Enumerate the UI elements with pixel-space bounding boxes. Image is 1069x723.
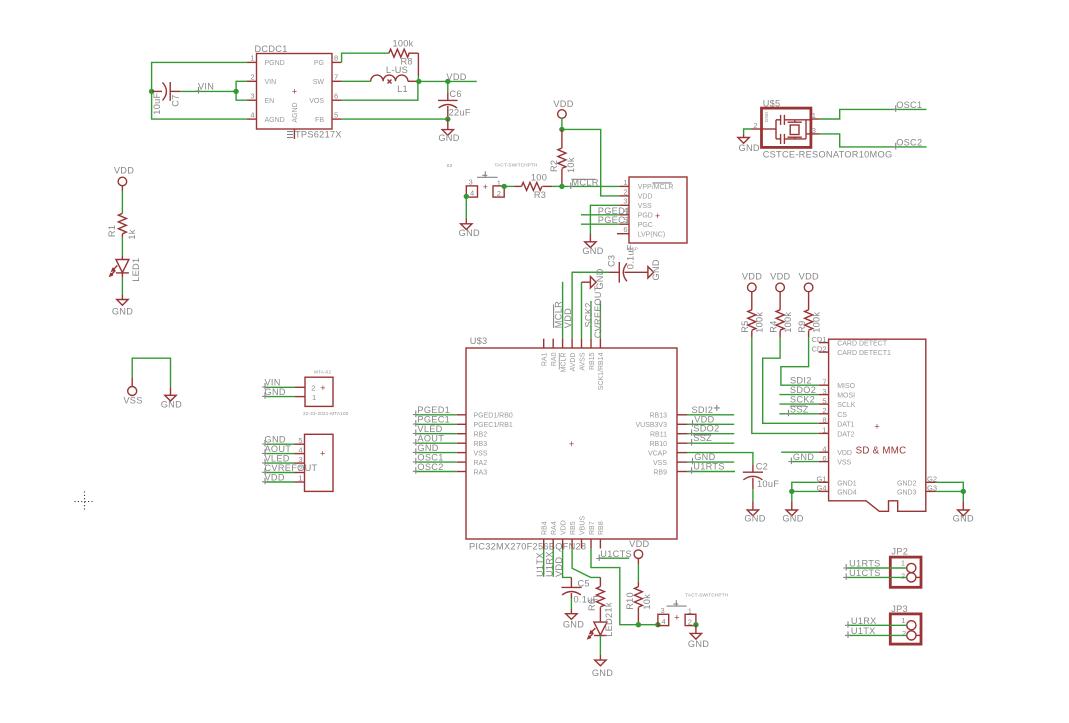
svg-text:AGND: AGND bbox=[292, 102, 299, 122]
ground LED1 bbox=[112, 300, 133, 317]
svg-text:DAT1: DAT1 bbox=[837, 421, 854, 428]
svg-text:5: 5 bbox=[334, 110, 338, 119]
svg-text:VOS: VOS bbox=[309, 98, 324, 105]
inductor L1 L-US bbox=[371, 65, 419, 94]
svg-text:R9: R9 bbox=[797, 320, 807, 332]
label MCLR bbox=[568, 178, 599, 190]
svg-text:+: + bbox=[569, 439, 574, 449]
svg-text:GND: GND bbox=[953, 513, 974, 523]
svg-text:AOUT: AOUT bbox=[265, 444, 292, 454]
svg-text:L1: L1 bbox=[397, 84, 408, 94]
svg-text:1: 1 bbox=[623, 178, 627, 187]
ground C5 bbox=[563, 614, 584, 630]
wire SD G2/G3 to GND bbox=[936, 482, 964, 501]
svg-text:1k: 1k bbox=[127, 229, 137, 239]
svg-text:GND: GND bbox=[459, 228, 480, 238]
svg-text:VSS: VSS bbox=[474, 450, 488, 457]
svg-text:EN: EN bbox=[265, 98, 275, 105]
wire VSS to GND bbox=[132, 358, 170, 395]
svg-text:RB10: RB10 bbox=[649, 441, 667, 448]
wire R1 to LED1 bbox=[121, 234, 123, 260]
svg-text:PGND: PGND bbox=[265, 60, 285, 67]
U$3 left net labels bbox=[413, 405, 450, 474]
svg-text:G2: G2 bbox=[927, 475, 937, 484]
connector JP2 bbox=[890, 547, 921, 588]
wire VDD to R1 bbox=[121, 186, 123, 214]
svg-text:4: 4 bbox=[250, 110, 254, 119]
wire ICSP VSS to GND bbox=[590, 205, 619, 242]
svg-text:+: + bbox=[874, 421, 879, 431]
wire U1RX bbox=[552, 549, 554, 577]
wire VIN to 2-pin bbox=[265, 386, 305, 388]
svg-text:2: 2 bbox=[497, 189, 501, 198]
DCDC1 pin names bbox=[265, 60, 325, 124]
svg-text:RA0: RA0 bbox=[551, 352, 558, 366]
svg-text:100k: 100k bbox=[783, 312, 793, 333]
label OSC1 bbox=[893, 100, 923, 112]
label SSZ (SD side) bbox=[786, 404, 809, 416]
ICSP pin names bbox=[638, 183, 674, 239]
U$3 right net labels bbox=[689, 405, 725, 474]
svg-text:MISO: MISO bbox=[837, 383, 855, 390]
svg-text:RA2: RA2 bbox=[474, 460, 488, 467]
svg-text:GND: GND bbox=[582, 246, 603, 256]
resistor R3 100 bbox=[504, 173, 562, 200]
wire VDD pin4 (SD) bbox=[781, 451, 819, 453]
svg-text:GND: GND bbox=[265, 387, 286, 397]
label U1RX (JP3) bbox=[845, 616, 877, 628]
svg-text:VDD: VDD bbox=[837, 450, 852, 457]
svg-text:VDD: VDD bbox=[553, 99, 573, 109]
svg-text:U1RTS: U1RTS bbox=[693, 462, 724, 472]
svg-text:3: 3 bbox=[469, 178, 473, 187]
supply VDD (R10) bbox=[629, 539, 649, 559]
svg-text:1: 1 bbox=[901, 616, 905, 625]
svg-text:RB9: RB9 bbox=[653, 469, 667, 476]
svg-text:GND: GND bbox=[739, 143, 760, 153]
U$3 right wires bbox=[687, 415, 735, 472]
U$3 left pin stubs bbox=[457, 415, 466, 472]
wire SDO2 (SD side) bbox=[779, 394, 818, 396]
svg-text:RA1: RA1 bbox=[542, 352, 549, 366]
supply VSS bbox=[123, 387, 142, 406]
U$3 top pin stubs bbox=[544, 339, 601, 348]
svg-text:PGED1/RB0: PGED1/RB0 bbox=[474, 413, 513, 420]
label GND (2-pin) bbox=[262, 387, 286, 399]
wire VSS pin6 (SD) bbox=[791, 461, 819, 463]
svg-text:VDD: VDD bbox=[114, 166, 134, 176]
svg-text:2: 2 bbox=[623, 187, 627, 196]
IC U$3 PIC32 box bbox=[466, 336, 677, 551]
junction G1/G4 bbox=[789, 489, 794, 494]
SD pin numbers bbox=[811, 335, 937, 493]
svg-text:R10: R10 bbox=[625, 592, 635, 610]
svg-text:VSS: VSS bbox=[123, 396, 142, 406]
svg-text:R6: R6 bbox=[587, 599, 597, 611]
svg-text:OSC2: OSC2 bbox=[417, 462, 443, 472]
svg-text:4: 4 bbox=[662, 617, 666, 626]
svg-text:RB3: RB3 bbox=[474, 441, 488, 448]
svg-text:VDD: VDD bbox=[563, 308, 573, 328]
wire R4 to DAT1 bbox=[763, 338, 819, 424]
SD pin stubs left bbox=[819, 343, 829, 492]
label VIN (2-pin) bbox=[262, 378, 281, 390]
svg-text:S2: S2 bbox=[447, 163, 453, 168]
svg-text:TACT-SWITCHPTH: TACT-SWITCHPTH bbox=[495, 162, 538, 167]
U$3 bottom pin names bbox=[542, 516, 606, 535]
wire VCAP to C2 bbox=[687, 453, 753, 465]
svg-text:VBUS: VBUS bbox=[579, 516, 586, 535]
svg-text:RB2: RB2 bbox=[474, 432, 488, 439]
wire junction to ICSP pin2 bbox=[562, 129, 620, 196]
svg-text:FB: FB bbox=[315, 117, 324, 124]
resistor R10 10k bbox=[625, 559, 652, 625]
svg-text:TPS6217X: TPS6217X bbox=[295, 129, 342, 139]
svg-text:GND: GND bbox=[417, 443, 438, 453]
svg-text:VIN: VIN bbox=[265, 79, 277, 86]
svg-text:PGD: PGD bbox=[638, 213, 653, 220]
svg-text:22-23-2021-MTA100: 22-23-2021-MTA100 bbox=[303, 411, 349, 416]
label tick VIN bbox=[196, 87, 201, 94]
ground VSS-net bbox=[161, 395, 182, 409]
ground LED2 bbox=[592, 660, 613, 678]
svg-text:MCLR: MCLR bbox=[554, 301, 564, 328]
wire U1RX to JP3 bbox=[848, 624, 907, 626]
wire S3 to GND bbox=[695, 625, 697, 634]
svg-text:DAT2: DAT2 bbox=[837, 431, 854, 438]
svg-text:2: 2 bbox=[250, 73, 254, 82]
svg-text:JP2: JP2 bbox=[891, 547, 908, 557]
svg-text:VDD: VDD bbox=[799, 272, 819, 282]
svg-text:PIC32MX270F256BQFN28: PIC32MX270F256BQFN28 bbox=[469, 541, 586, 551]
svg-text:U1RX: U1RX bbox=[851, 616, 877, 626]
IC SD & MMC box bbox=[829, 339, 926, 511]
svg-text:RB8: RB8 bbox=[598, 521, 605, 535]
supply VDD (R4) bbox=[770, 272, 790, 292]
svg-text:6: 6 bbox=[822, 454, 826, 463]
connector 5-pin box bbox=[298, 434, 333, 491]
svg-text:PGED1: PGED1 bbox=[417, 405, 450, 415]
origin crosshair bbox=[75, 492, 95, 512]
wire OSC1 bbox=[820, 109, 927, 119]
svg-text:CD1: CD1 bbox=[811, 335, 826, 344]
svg-text:CS: CS bbox=[837, 412, 847, 419]
svg-text:VDD: VDD bbox=[770, 272, 790, 282]
svg-text:VDD: VDD bbox=[560, 520, 567, 535]
wire PG to R8 bbox=[342, 53, 389, 62]
ground C2 bbox=[744, 510, 765, 523]
svg-text:+: + bbox=[320, 449, 325, 459]
junction C7 left bbox=[149, 89, 154, 94]
junction R2/MCLR bbox=[559, 184, 564, 189]
label U1RTS (JP2) bbox=[843, 559, 880, 571]
svg-text:SCLK: SCLK bbox=[837, 402, 856, 409]
svg-text:1: 1 bbox=[688, 607, 692, 616]
svg-text:1: 1 bbox=[312, 393, 316, 402]
svg-text:PGC: PGC bbox=[638, 222, 653, 229]
svg-text:1: 1 bbox=[497, 178, 501, 187]
svg-text:RB11: RB11 bbox=[650, 432, 667, 439]
junction VIN-EN bbox=[233, 89, 238, 94]
junction R10/button net bbox=[636, 622, 641, 627]
svg-text:R5: R5 bbox=[740, 320, 750, 332]
svg-text:GND: GND bbox=[563, 620, 584, 630]
svg-text:TACT-SWITCHPTH: TACT-SWITCHPTH bbox=[685, 593, 728, 598]
IC DCDC1 TPS6217X box bbox=[255, 44, 342, 139]
svg-text:LED1: LED1 bbox=[131, 258, 141, 282]
svg-text:SD & MMC: SD & MMC bbox=[856, 446, 907, 457]
wire OSC2 bbox=[820, 134, 927, 147]
svg-text:C2: C2 bbox=[756, 462, 768, 472]
ground SD right bbox=[953, 501, 974, 523]
svg-text:OSC1: OSC1 bbox=[896, 100, 922, 110]
svg-text:0.1uF: 0.1uF bbox=[626, 244, 636, 269]
svg-text:U1CTS: U1CTS bbox=[849, 568, 881, 578]
wire FB to C6 bottom bbox=[342, 118, 448, 120]
wire R9 to MISO bbox=[781, 338, 819, 386]
svg-text:100k: 100k bbox=[755, 312, 765, 333]
svg-text:+: + bbox=[483, 182, 488, 192]
svg-text:C6: C6 bbox=[449, 89, 461, 99]
resistor R1 1k bbox=[107, 213, 137, 239]
SD pin names bbox=[837, 341, 916, 497]
wires 5-pin bbox=[265, 444, 305, 482]
label U1CTS bbox=[596, 549, 632, 561]
wire PGED1 bbox=[581, 214, 619, 216]
svg-text:VDD: VDD bbox=[265, 472, 285, 482]
wire U1TX bbox=[543, 549, 545, 577]
svg-text:MTA-02: MTA-02 bbox=[314, 369, 331, 374]
wire U1TX to JP3 bbox=[848, 634, 907, 636]
svg-text:RA4: RA4 bbox=[551, 521, 558, 535]
svg-text:AVSS: AVSS bbox=[579, 352, 586, 370]
LED LED1 bbox=[110, 258, 141, 282]
svg-text:MCLR: MCLR bbox=[560, 353, 567, 373]
svg-text:RB5: RB5 bbox=[570, 521, 577, 535]
junction S3 pin bbox=[655, 622, 660, 627]
svg-text:VDD: VDD bbox=[638, 194, 653, 201]
ground SD left bbox=[782, 501, 803, 523]
resistor R9 100k bbox=[797, 292, 822, 338]
junction G2/G3 bbox=[961, 489, 966, 494]
wire VIN net bbox=[180, 81, 247, 100]
svg-text:GND: GND bbox=[782, 513, 803, 523]
ground S2 bbox=[459, 224, 480, 238]
svg-text:RB4: RB4 bbox=[542, 521, 549, 535]
svg-text:R2: R2 bbox=[549, 160, 559, 172]
U$3 left pin names bbox=[474, 413, 513, 477]
svg-text:PG: PG bbox=[314, 60, 324, 67]
svg-text:2: 2 bbox=[688, 617, 692, 626]
svg-text:GND: GND bbox=[438, 133, 459, 143]
wire R8 to SW node bbox=[417, 76, 419, 81]
svg-text:5: 5 bbox=[822, 396, 826, 405]
U$3 right pin names bbox=[635, 413, 667, 477]
wire U1RTS to JP2 bbox=[846, 567, 907, 569]
junction VDD/R2 bbox=[559, 127, 564, 132]
ground C3 (rotated right) bbox=[648, 259, 661, 280]
U$3 bottom pin stubs bbox=[544, 539, 601, 549]
label OSC2 bbox=[893, 137, 923, 149]
wire U1CTS to JP2 bbox=[846, 576, 907, 578]
svg-text:R3: R3 bbox=[534, 190, 546, 200]
svg-text:VSS: VSS bbox=[837, 460, 851, 467]
svg-text:VDD: VDD bbox=[742, 272, 762, 282]
svg-text:RB7: RB7 bbox=[589, 521, 596, 535]
svg-text:CARD DETECT: CARD DETECT bbox=[837, 341, 888, 348]
resonator pin numbers bbox=[753, 111, 816, 135]
switch S3 bbox=[658, 593, 728, 627]
svg-text:10uF: 10uF bbox=[757, 479, 779, 489]
svg-text:RA3: RA3 bbox=[474, 469, 488, 476]
svg-text:GND: GND bbox=[161, 399, 182, 409]
wire resonator pin2 to GND bbox=[744, 129, 752, 135]
connector 2-pin box bbox=[303, 369, 349, 416]
capacitor C3 0.1uF bbox=[572, 244, 648, 282]
svg-text:2: 2 bbox=[822, 406, 826, 415]
svg-text:+: + bbox=[655, 211, 660, 221]
svg-text:U$3: U$3 bbox=[470, 336, 488, 346]
U$3 left wires bbox=[415, 415, 456, 472]
capacitor C5 0.1uF bbox=[561, 577, 598, 613]
svg-text:GND: GND bbox=[112, 306, 133, 316]
svg-text:GND1: GND1 bbox=[837, 480, 857, 487]
svg-text:4: 4 bbox=[822, 444, 826, 453]
wire SW to L1 bbox=[342, 80, 371, 82]
svg-text:10k: 10k bbox=[642, 594, 652, 610]
connector ICSP box bbox=[627, 177, 688, 252]
junction L1/R8 bbox=[416, 79, 421, 84]
ground resonator bbox=[738, 135, 760, 154]
wire SCK2 (SD side) bbox=[779, 403, 818, 405]
svg-text:4: 4 bbox=[470, 189, 474, 198]
svg-text:3: 3 bbox=[623, 197, 627, 206]
wire SCK2 vertical bbox=[590, 301, 592, 339]
svg-text:CARD DETECT1: CARD DETECT1 bbox=[837, 350, 891, 357]
resonator internals bbox=[762, 115, 811, 144]
junction S2 pin4 bbox=[464, 194, 469, 199]
svg-text:R1: R1 bbox=[107, 225, 117, 237]
svg-text:7: 7 bbox=[822, 377, 826, 386]
label MCLR rotated bbox=[554, 301, 564, 328]
svg-text:AVDD: AVDD bbox=[570, 353, 577, 372]
svg-text:G3: G3 bbox=[927, 484, 937, 493]
SD pin stubs right bbox=[926, 482, 936, 491]
ICSP pin numbers bbox=[623, 178, 627, 234]
wire LED1 to GND bbox=[121, 273, 123, 300]
svg-text:7: 7 bbox=[334, 73, 338, 82]
wire GND to 2-pin bbox=[265, 396, 305, 398]
svg-text:8: 8 bbox=[822, 416, 826, 425]
svg-text:C5: C5 bbox=[578, 579, 590, 589]
svg-text:100k: 100k bbox=[812, 312, 822, 333]
svg-text:VSS: VSS bbox=[653, 460, 667, 467]
svg-text:C3: C3 bbox=[606, 255, 616, 267]
capacitor C6 22uF bbox=[438, 81, 471, 119]
capacitor C2 10uF bbox=[743, 462, 779, 510]
junction VDD/C6 bbox=[445, 79, 450, 84]
svg-text:GND: GND bbox=[744, 513, 765, 523]
wire AVSS to gnd bbox=[582, 282, 591, 339]
svg-text:8: 8 bbox=[334, 54, 338, 63]
pad pin 9 mark bbox=[287, 132, 293, 138]
svg-text:VSS: VSS bbox=[638, 203, 652, 210]
svg-text:RB13: RB13 bbox=[649, 413, 667, 420]
svg-text:6: 6 bbox=[334, 91, 338, 100]
svg-text:C7: C7 bbox=[171, 94, 181, 106]
svg-text:GND2: GND2 bbox=[897, 480, 917, 487]
svg-text:6: 6 bbox=[623, 225, 627, 234]
svg-text:10k: 10k bbox=[566, 157, 576, 173]
svg-text:SDO2: SDO2 bbox=[790, 385, 816, 395]
DCDC1 pin stubs bbox=[247, 62, 342, 139]
svg-text:R4: R4 bbox=[769, 320, 779, 332]
svg-text:1: 1 bbox=[822, 426, 826, 435]
svg-text:3: 3 bbox=[250, 91, 254, 100]
svg-text:+: + bbox=[674, 613, 679, 623]
svg-text:LVP(NC): LVP(NC) bbox=[638, 232, 665, 239]
svg-text:10uF: 10uF bbox=[152, 92, 162, 114]
svg-text:VCAP: VCAP bbox=[648, 450, 667, 457]
wire AVDD to C3 bbox=[572, 272, 609, 338]
resistor R2 10k bbox=[549, 129, 576, 186]
U$3 top pin names bbox=[542, 352, 606, 390]
wire RB5 to R6 (diagonal) bbox=[572, 549, 600, 578]
svg-text:3: 3 bbox=[661, 606, 665, 615]
svg-text:VDD: VDD bbox=[446, 72, 466, 82]
svg-text:PGEC1: PGEC1 bbox=[598, 215, 631, 225]
svg-text:DCDC1: DCDC1 bbox=[255, 44, 288, 54]
svg-text:VLED: VLED bbox=[417, 424, 442, 434]
junction S3 pin2 bbox=[693, 622, 698, 627]
svg-text:100: 100 bbox=[531, 173, 547, 183]
supply VDD (R2) bbox=[553, 99, 573, 118]
svg-text:2: 2 bbox=[901, 571, 905, 580]
capacitor C7 10uF bbox=[152, 82, 181, 115]
svg-text:PGEC1/RB1: PGEC1/RB1 bbox=[474, 422, 513, 429]
supply VDD (LED1 chain) bbox=[114, 166, 134, 186]
svg-text:GND: GND bbox=[764, 111, 769, 122]
wire R5 to DAT2 bbox=[752, 338, 819, 434]
resistor R4 100k bbox=[769, 292, 794, 338]
ground AVSS (rotated right) bbox=[590, 268, 605, 289]
svg-text:CVREFOUT: CVREFOUT bbox=[593, 285, 603, 338]
svg-text:GND3: GND3 bbox=[897, 489, 917, 496]
ICSP pin stubs bbox=[617, 186, 629, 233]
svg-text:L-US: L-US bbox=[386, 65, 408, 75]
label U1TX (JP3) bbox=[845, 626, 876, 638]
svg-text:U1TX: U1TX bbox=[851, 626, 876, 636]
svg-text:+: + bbox=[292, 87, 297, 97]
svg-text:2: 2 bbox=[311, 384, 315, 393]
label GND (SD side) bbox=[788, 452, 814, 464]
svg-text:GND4: GND4 bbox=[837, 489, 857, 496]
wire SSZ (SD side) bbox=[779, 413, 818, 415]
svg-text:RB15: RB15 bbox=[589, 352, 596, 370]
wire S2 to GND bbox=[465, 196, 467, 223]
svg-text:VDD: VDD bbox=[629, 539, 649, 549]
svg-text:GND: GND bbox=[651, 259, 661, 280]
wire MCLR vertical (U$3) bbox=[562, 282, 564, 339]
svg-text:GND: GND bbox=[592, 668, 613, 678]
svg-text:CVREFOUT: CVREFOUT bbox=[265, 463, 318, 473]
resonator U$5 box bbox=[762, 99, 893, 160]
wire VDD to junction bbox=[561, 118, 563, 129]
labels 5-pin nets bbox=[262, 435, 318, 485]
junction C6/FB bbox=[445, 116, 450, 121]
resistor R6 1k bbox=[587, 577, 614, 622]
wire RB7 to button bbox=[591, 549, 658, 625]
